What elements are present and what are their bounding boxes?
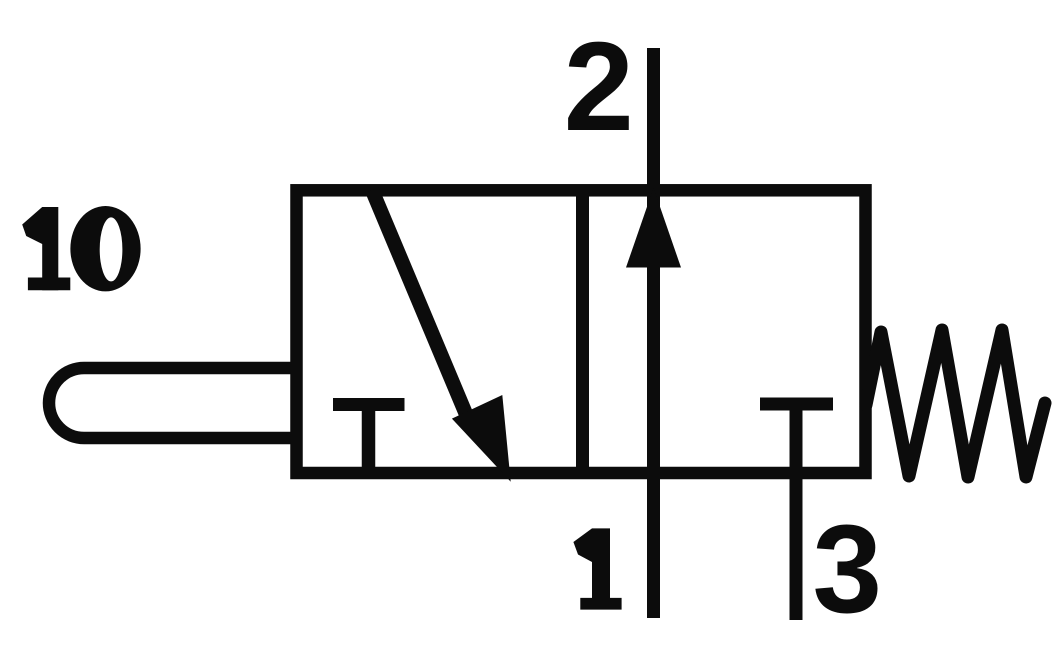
right blocked port T bar xyxy=(760,398,833,411)
left blocked port T stem xyxy=(362,405,376,471)
diagonal blocked-path arrow shaft xyxy=(372,190,471,426)
up arrowhead xyxy=(626,188,681,268)
port 2-1 flow line xyxy=(647,48,660,618)
label 1 xyxy=(573,528,621,609)
left blocked port T bar xyxy=(333,398,405,411)
svg-text:3: 3 xyxy=(813,500,883,639)
return spring xyxy=(866,330,1045,477)
label 10 digit 1 xyxy=(22,207,70,290)
label 10 digit 0 xyxy=(70,206,140,291)
port 3 stem line xyxy=(790,404,803,620)
svg-text:2: 2 xyxy=(564,16,634,157)
position divider xyxy=(576,190,589,473)
manual plunger actuator xyxy=(49,368,297,438)
valve body box xyxy=(297,190,866,473)
diagonal arrowhead xyxy=(452,395,511,482)
